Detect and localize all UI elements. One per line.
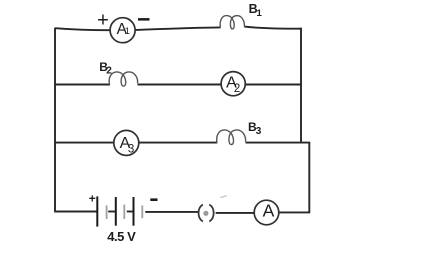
- key / plug contact symbol left arc: [199, 205, 203, 222]
- battery cell 3 negative plate (short): [141, 205, 143, 218]
- ammeter A1 body: [110, 18, 135, 43]
- wire: top row (row 1) left of bulb B1: [55, 28, 111, 30]
- ammeter A body (bottom row): [254, 200, 279, 225]
- svg-text:A: A: [263, 201, 275, 221]
- svg-text:3: 3: [256, 126, 262, 137]
- wire: bottom row ammeter A to lower-right corner: [279, 211, 310, 213]
- wire: row 2 right of bulb B2: [138, 84, 302, 86]
- svg-text:4.5 V: 4.5 V: [107, 229, 136, 244]
- svg-text:3: 3: [128, 143, 134, 155]
- battery cell 2 negative plate (short): [123, 205, 125, 219]
- faint pencil smudge above key: [221, 196, 227, 198]
- wire: row 3 right of bulb B3 to lower-right corner: [246, 142, 311, 144]
- battery cell 3 positive plate (long): [133, 197, 135, 226]
- wire: bottom row key to ammeter A: [216, 212, 255, 214]
- bulb B2 filament: [109, 72, 137, 86]
- battery cell 1 positive plate (long): [96, 196, 98, 226]
- minus sign at battery: [150, 198, 157, 201]
- svg-text:+: +: [97, 9, 109, 31]
- wire: row 3 left of bulb B3: [55, 142, 217, 144]
- svg-text:1: 1: [257, 8, 263, 19]
- svg-text:2: 2: [106, 65, 112, 76]
- svg-text:2: 2: [234, 83, 240, 95]
- key / plug contact center dot: [203, 211, 208, 216]
- ammeter A3 body: [114, 130, 139, 155]
- wire: battery inter-cell stub 1: [108, 211, 116, 213]
- wire: bottom row left of battery: [55, 211, 97, 213]
- battery cell 2 positive plate (long): [115, 197, 117, 226]
- wire: row 2 left of bulb B2: [55, 84, 110, 86]
- wire: right vertical bus upper (rows 1-3): [300, 28, 302, 143]
- wire: bottom row battery to key: [145, 211, 198, 213]
- bulb B3 filament: [217, 130, 246, 145]
- key / plug contact symbol right arc: [209, 205, 213, 222]
- wire: top row (row 1) right of bulb B1: [244, 27, 301, 29]
- wire: left vertical bus: [54, 28, 56, 213]
- wire: battery inter-cell stub 2: [127, 211, 134, 213]
- bulb B1 filament: [220, 16, 244, 29]
- wire: right vertical bus lower: [308, 143, 310, 213]
- svg-text:1: 1: [125, 26, 130, 37]
- svg-text:+: +: [89, 191, 96, 205]
- ammeter A2 body: [221, 72, 245, 96]
- minus sign at ammeter A1: [138, 18, 150, 21]
- battery cell 1 negative plate (short): [106, 205, 108, 219]
